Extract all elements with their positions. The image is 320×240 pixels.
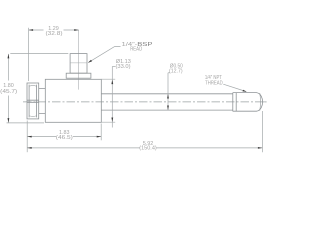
port centerline / 1.29 extension (78, 30, 80, 90)
svg-text:READ: READ (130, 46, 142, 52)
label 1/4 NPT THREAD with leader (223, 84, 246, 91)
tip sphere tangent arc (259, 93, 262, 110)
dimension dia 1.13 (33.0) body (101, 67, 115, 128)
dimension 1.29 (32.8) (29, 28, 79, 81)
dimension dia 0.50 (12.7) stem (168, 73, 170, 110)
neck between nut and body (39, 89, 46, 114)
top port 1/4 BSP (70, 54, 87, 74)
svg-text:THREAD: THREAD (205, 81, 223, 87)
svg-text:(32.8): (32.8) (46, 31, 63, 37)
label 1/4 BSP READ with leader (89, 47, 121, 63)
svg-text:(12.7): (12.7) (169, 69, 183, 75)
hex nut (27, 83, 39, 119)
svg-text:(150.4): (150.4) (139, 146, 157, 152)
port flange (66, 73, 91, 78)
dimension 1.83 (46.5) (27, 124, 101, 141)
centerline main axis (23, 101, 266, 103)
dimension 5.92 (150.4) overall (27, 111, 262, 152)
dimension 1.80 (45.7) (7, 54, 69, 123)
stem tube (101, 94, 233, 110)
body block (45, 79, 101, 122)
svg-text:(45.7): (45.7) (0, 89, 17, 95)
svg-text:(33.0): (33.0) (116, 64, 131, 70)
npt thread section with bullet nose tip (233, 93, 263, 112)
thread relief grooves (233, 93, 236, 112)
svg-text:(46.5): (46.5) (56, 135, 73, 141)
